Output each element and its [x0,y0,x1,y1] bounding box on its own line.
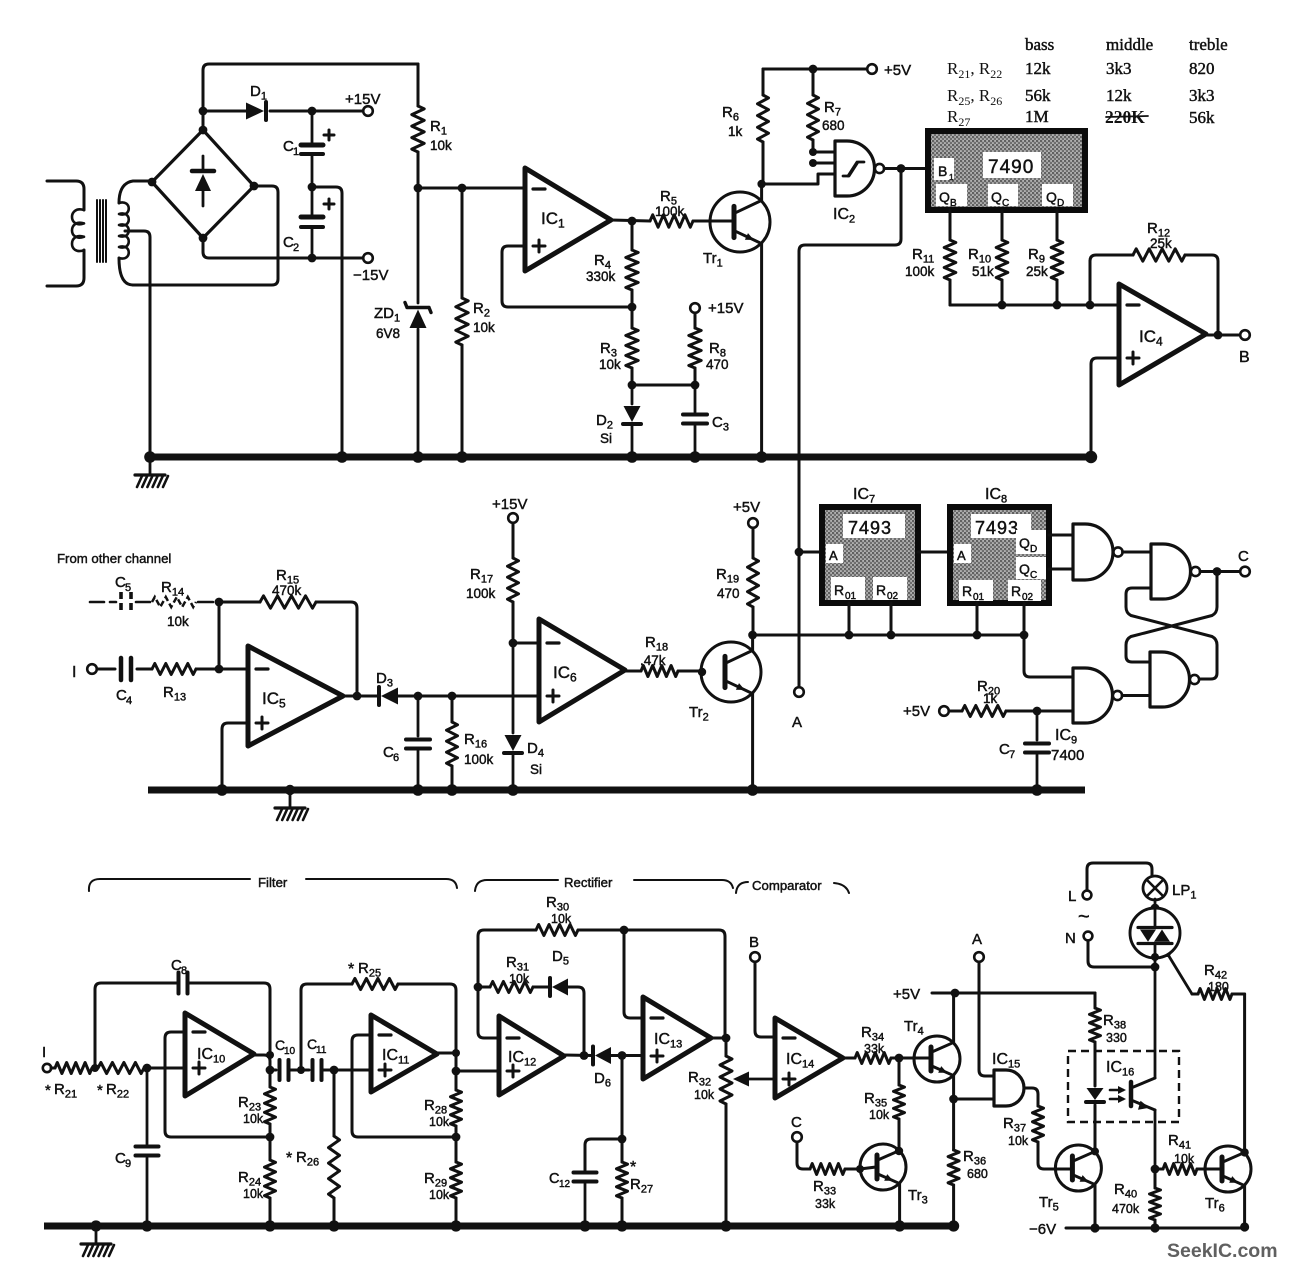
wire IC4 non-inverting input to ground bus [1091,358,1119,453]
wire cross-coupling B-out to D-in [1126,572,1217,663]
wire A to IC15 upper input [979,962,994,1076]
wire IC8 R02 pin [1023,603,1026,635]
ground symbol at top bus left end [149,458,152,475]
svg-text:1k: 1k [728,124,743,139]
svg-text:Filter: Filter [258,875,288,890]
capacitor C3 [694,385,697,412]
wire IC13 inverting input to R30 line [624,930,643,1018]
svg-text:Si: Si [600,431,612,446]
resistor R10 on QC pin [1001,210,1004,240]
capacitor C7 [1036,711,1039,740]
resistor R33 [797,1142,810,1169]
wire phototransistor collector to triac [1154,967,1157,1078]
svg-text:Comparator: Comparator [752,878,822,893]
svg-text:1: 1 [949,172,954,182]
resistor R24 [269,1137,272,1160]
wire lamp to triac [1154,899,1157,910]
resistor R38 [1094,993,1097,1008]
svg-text:10k: 10k [429,1115,450,1129]
svg-text:R: R [962,583,972,599]
wire phototransistor emitter to R40/R41 node [1154,1110,1157,1169]
svg-text:8: 8 [181,965,187,977]
svg-text:680: 680 [822,118,845,133]
svg-text:10k: 10k [869,1108,890,1122]
svg-text:7: 7 [1009,749,1015,761]
resistor R2 [461,188,464,298]
terminal +15V (middle) [508,513,518,523]
svg-text:10k: 10k [694,1088,715,1102]
wire IC9b output to terminal C [1200,570,1240,573]
svg-text:100k: 100k [466,586,496,601]
wire IC11 output node [437,1052,456,1055]
ground bus (bottom section) [44,1223,958,1230]
potentiometer R32 [725,1038,728,1056]
svg-text:L: L [1068,888,1076,905]
svg-text:12k: 12k [1025,59,1051,78]
svg-text:R: R [1011,583,1021,599]
resistor R21 [51,1067,55,1070]
diode D6 [591,1047,595,1065]
wire Tr6 collector to R42 [1243,994,1246,1152]
resistor R12 feedback [1089,261,1092,305]
optocoupler LED [1087,1088,1104,1100]
resistor R22 [91,1064,99,1072]
op-amp IC5 [248,646,343,746]
resistor R8 [694,313,697,328]
svg-text:3k3: 3k3 [1106,59,1132,78]
wire bridge AC2 to secondary bottom [133,186,278,285]
resistor R6 [762,69,765,95]
diode D2 Si [631,385,634,404]
svg-text:treble: treble [1189,35,1228,54]
capacitor C6 [417,696,420,736]
transistor Tr1 [710,192,770,252]
resistor R19 [752,528,755,558]
optocoupler IC16 dashed box [1068,1051,1179,1122]
transistor Tr6 [1205,1146,1251,1192]
wire C5/R14 node down to input line [218,602,221,669]
wire L to lamp [1087,863,1152,890]
capacitor C1 [311,111,314,143]
ground symbol (bottom bus) [90,1220,101,1231]
wire IC2 output down to node A line [799,169,901,687]
wire bridge positive output to top rail [203,64,418,130]
terminal +5V (R19) [748,518,758,528]
svg-text:Q: Q [991,189,1002,205]
wire IC7 R01 pin [848,603,851,635]
svg-text:10k: 10k [1008,1134,1029,1148]
resistor R28 [455,1071,458,1090]
svg-text:10k: 10k [509,972,530,986]
wire QD output [1049,534,1073,537]
svg-text:Q: Q [1046,189,1057,205]
terminal C (output) [1240,567,1250,577]
resistor R1 [417,64,420,106]
svg-text:470: 470 [717,586,740,601]
wire input node to IC10 [144,1067,185,1070]
resistor R30 feedback [478,930,536,987]
wire R3/R8 bottom junction [632,384,695,387]
wire Tr4 emitter node [952,1076,955,1099]
wire Tr2 emitter to ground bus [751,694,754,786]
wire Tr1 emitter to ground bus [760,244,763,453]
wire +5V rail (top) [763,68,866,71]
wire IC12 inverting input to R30/R31 node [478,987,499,1038]
svg-text:From other channel: From other channel [57,551,171,566]
svg-text:+5V: +5V [903,703,930,720]
transistor Tr3 [860,1144,906,1190]
svg-text:+15V: +15V [345,91,380,108]
capacitor C8 feedback [95,983,177,1068]
resistor R14 (phantom, dashed) [136,601,150,604]
svg-text:D: D [1057,198,1064,209]
svg-text:C: C [1002,198,1009,209]
diode D3 [377,687,381,705]
resistor R23 [269,1070,272,1087]
svg-text:10k: 10k [430,138,452,153]
wire Tr5 collector to optocoupler [1094,1106,1097,1151]
svg-text:C: C [791,1114,802,1131]
wire B to IC14 inverting input [755,962,775,1037]
resistor R35 [898,1058,901,1085]
diode D5 [548,978,552,996]
ground bus (middle section) [148,787,1085,794]
svg-text:+15V: +15V [492,496,527,513]
diode D1 [246,103,264,120]
svg-text:SeekIC.com: SeekIC.com [1167,1240,1278,1262]
wire D6 node to C12/R27 branch [621,1056,624,1140]
svg-text:R: R [876,582,886,598]
svg-text:+5V: +5V [733,499,760,516]
op-amp IC1 [525,168,611,271]
wire C1/C2 midpoint to ground [312,187,342,453]
svg-text:bass: bass [1025,35,1054,54]
resistor R36 [952,1099,955,1150]
resistor R27 [621,1139,624,1162]
NAND gate IC9c [1073,668,1113,723]
svg-text:Q: Q [1019,561,1030,577]
brace label Filter [89,879,250,891]
svg-text:10: 10 [284,1046,296,1057]
svg-text:4: 4 [126,695,132,707]
capacitor C10 [270,1069,276,1072]
wire IC11 inverting feedback loop [352,1035,456,1137]
svg-text:100k: 100k [905,264,935,279]
lamp LP1 [1143,876,1167,900]
wire IC8 R02 to IC9c input [1024,635,1073,677]
wire Tr6 emitter to -6V [1243,1186,1246,1227]
wire R17 to IC6 inverting input [513,642,539,645]
svg-text:470: 470 [706,357,729,372]
zener diode ZD1 [417,188,420,303]
wiper arrow of R32 from IC14 [748,1078,775,1081]
svg-text:6V8: 6V8 [376,326,400,341]
wire Tr1 collector to R6 node [760,184,763,200]
svg-text:820: 820 [1189,59,1215,78]
transformer T1 core [96,200,98,262]
resistor R16 [451,696,454,722]
svg-text:C: C [1030,570,1037,581]
capacitor C2 [311,187,314,215]
resistor R31 [478,986,490,989]
svg-text:01: 01 [845,591,857,602]
wire node A vertical [795,548,804,557]
counter IC 7490 [928,131,1085,210]
svg-text:*: * [630,1159,636,1176]
svg-text:A: A [792,714,802,731]
resistor R29 [455,1137,458,1162]
svg-text:51k: 51k [972,264,994,279]
wire R42 to triac gate [1167,953,1192,994]
transistor Tr5 [1055,1145,1101,1191]
transformer T1 primary winding [47,181,84,210]
resistor R25 feedback [301,984,352,1070]
terminal B (output) [1240,330,1250,340]
svg-text:25k: 25k [1150,236,1172,251]
capacitor C4 [97,668,115,671]
NAND gate IC9d [1150,652,1190,707]
svg-text:12k: 12k [1106,86,1132,105]
svg-text:R: R [834,582,844,598]
svg-text:10k: 10k [1174,1152,1195,1166]
svg-text:100k: 100k [655,204,685,219]
wire secondary center tap to ground bus [125,231,150,453]
wire IC11 node to IC12 non-inverting input [456,1070,499,1073]
resistor R20 [949,710,962,713]
diode D4 Si [512,643,515,733]
svg-text:middle: middle [1106,35,1153,54]
optocoupler phototransistor [1129,1082,1134,1106]
wire IC10 inverting feedback loop [165,1032,270,1137]
ground bus (top section) [150,454,1091,461]
svg-text:B: B [938,163,947,179]
AND gate IC15 [994,1070,1024,1106]
wire Tr2 collector node [751,635,754,650]
wire C11 to IC11 non-inverting input [334,1069,371,1072]
svg-text:7493: 7493 [848,518,892,538]
svg-text:A: A [957,548,966,563]
svg-text:180: 180 [1208,980,1229,994]
svg-text:470k: 470k [272,583,302,598]
svg-text:470k: 470k [1112,1202,1140,1216]
NAND gate IC9a [1073,524,1113,580]
wire bridge negative to -15V terminal [203,238,363,258]
wire IC2 output to 7490 input B [884,167,928,170]
svg-text:11: 11 [316,1045,327,1056]
resistor R42 [1232,993,1245,996]
wire summing node to IC4 inverting input [950,304,1119,307]
NAND gate IC9b [1151,544,1191,599]
svg-text:Rectifier: Rectifier [564,875,613,890]
resistor R18 [625,670,641,673]
terminal +5V (top) [867,64,877,74]
svg-text:10k: 10k [551,912,572,926]
svg-text:680: 680 [967,1167,988,1181]
resistor R13 [152,664,196,675]
op-amp IC4 [1119,284,1206,385]
resistor R40 [1154,1169,1157,1188]
bridge rectifier BR1 [152,130,254,238]
svg-text:N: N [1065,930,1076,947]
capacitor C5 (phantom, dashed) [90,601,104,604]
wire cross-coupling D-out to B-in [1126,588,1217,679]
svg-text:6: 6 [393,752,399,764]
op-amp IC10 [185,1013,254,1096]
wire Tr4 emitter to IC15 lower input [954,1098,994,1101]
wire IC10 output node [254,1055,270,1070]
capacitor C9 [146,1068,149,1144]
svg-text:*: * [348,961,354,978]
wire Tr5 emitter to -6V [1094,1185,1097,1228]
svg-text:1: 1 [293,146,299,158]
ground symbol (middle bus) [285,785,295,795]
wire QC output [1049,568,1073,571]
svg-text:330: 330 [1106,1031,1127,1045]
svg-text:10k: 10k [473,320,495,335]
capacitor C11 [297,1066,305,1074]
svg-text:A: A [972,931,982,948]
svg-text:7490: 7490 [988,157,1034,178]
resistor R34 [843,1057,855,1060]
resistor R11 on QB pin [949,210,952,240]
svg-text:3k3: 3k3 [1189,86,1215,105]
terminal -15V [363,253,373,263]
wire IC13 output node [711,1037,726,1040]
svg-text:Si: Si [530,762,542,777]
terminal +15V (top) [363,106,373,116]
op-amp IC14 [775,1018,843,1098]
svg-text:1M: 1M [1025,107,1049,126]
wire IC1 output node [611,220,650,221]
svg-text:9: 9 [125,1158,131,1170]
wire IC5 non-inverting input to ground bus [222,723,248,786]
transistor Tr2 [701,642,761,702]
op-amp IC13 [643,997,711,1079]
svg-text:10k: 10k [429,1188,450,1202]
optocoupler light arrows [1110,1089,1123,1092]
svg-text:+5V: +5V [884,62,911,79]
svg-text:33k: 33k [864,1042,885,1056]
wire D3 to IC6 non-inverting input junctions [414,692,423,701]
svg-text:02: 02 [887,591,899,602]
terminal +15V (R8) [690,303,700,313]
svg-text:2: 2 [293,242,299,254]
svg-text:*: * [97,1082,103,1099]
NAND gate IC2 (Schmitt) [835,141,875,196]
wire D1 to +15V terminal [270,110,363,113]
wire IC7 to IC8 link [918,551,950,554]
wire IC12 output node [564,1054,592,1058]
svg-text:B: B [950,198,957,209]
resistor R26 [330,1066,339,1075]
svg-text:+15V: +15V [708,300,743,317]
svg-text:100k: 100k [464,752,494,767]
svg-text:B: B [1239,349,1250,366]
resistor R37 [1024,1088,1038,1106]
resistor R5 [650,215,693,227]
wire IC4 output to terminal B [1206,334,1240,337]
wire Tr4 collector to +5V [952,993,955,1042]
svg-text:Q: Q [1019,535,1030,551]
wire IC9c output to IC9d [1122,694,1150,697]
wire R1 node to IC1 inverting input [418,187,525,190]
svg-text:1k: 1k [983,691,998,706]
svg-text:7400: 7400 [1051,747,1084,764]
wire Tr3 emitter to ground bus [898,1184,901,1222]
transistor Tr4 [914,1036,960,1082]
svg-text:*: * [286,1150,292,1167]
svg-text:12: 12 [559,1179,571,1190]
svg-text:+5V: +5V [893,986,920,1003]
svg-text:02: 02 [1022,592,1034,603]
svg-text:B: B [749,934,759,951]
svg-text:*: * [45,1082,51,1099]
wire IC5 output node [343,695,378,698]
transformer T1 secondary winding [119,181,150,203]
wire IC2 input ties [813,151,835,154]
svg-text:I: I [42,1044,46,1061]
svg-text:5: 5 [125,582,131,594]
op-amp IC6 [539,619,625,722]
wire N to triac MT1 [1088,941,1155,967]
svg-text:330k: 330k [586,269,616,284]
wire reset line R01/R02 [753,634,1024,637]
brace label Comparator [736,882,748,893]
op-amp IC12 [499,1016,564,1095]
svg-text:−6V: −6V [1029,1221,1056,1238]
svg-text:I: I [72,664,76,681]
svg-text:10k: 10k [243,1187,264,1201]
svg-text:56k: 56k [1189,108,1215,127]
resistor R3 [631,307,634,328]
wire bridge positive to D1 branch [203,110,246,113]
svg-text:10k: 10k [167,614,189,629]
svg-text:01: 01 [973,592,985,603]
wire A node to IC7 input [799,551,822,554]
resistor R17 [512,523,515,558]
svg-text:10k: 10k [599,357,621,372]
wire IC9a output to IC9b [1123,551,1151,554]
wire IC7 R02 pin [890,603,893,635]
resistor R15 feedback [219,601,260,604]
wire IC8 R01 pin [976,603,979,635]
svg-text:C: C [1238,548,1249,565]
resistor R7 [812,69,815,95]
resistor R41 [1155,1168,1163,1171]
svg-text:.47k: .47k [640,653,666,668]
svg-text:33k: 33k [815,1197,836,1211]
brace label Rectifier [475,880,558,891]
capacitor C12 [585,1139,622,1170]
svg-text:C: C [549,1171,559,1187]
resistor R4 [631,221,634,250]
svg-text:7493: 7493 [975,518,1019,538]
op-amp IC11 [371,1015,437,1092]
svg-text:~: ~ [1078,906,1090,928]
triac Q1 [1130,908,1180,958]
resistor R9 on QD pin [1056,210,1059,240]
terminal A (output) [794,687,804,697]
svg-text:−15V: −15V [353,267,388,284]
svg-text:D: D [1030,544,1037,555]
wire IC1 non-inverting input loop [502,246,632,307]
svg-text:10k: 10k [243,1112,264,1126]
svg-text:25k: 25k [1026,264,1048,279]
svg-text:A: A [829,548,838,563]
svg-text:56k: 56k [1025,86,1051,105]
svg-text:Q: Q [939,189,950,205]
